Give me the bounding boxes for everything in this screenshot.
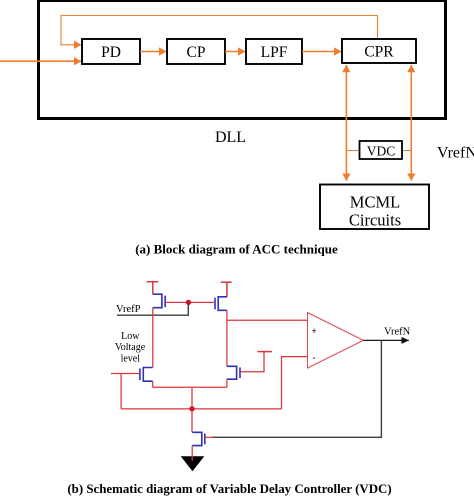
svg-text:DLL: DLL <box>215 129 246 146</box>
wire tail down to bottom rail <box>191 387 193 409</box>
wire PD to CP <box>140 51 166 53</box>
transistor M5 NMOS bottom <box>192 432 205 445</box>
block CPR <box>342 39 416 63</box>
wire CPR-MCML left (double arrow) <box>345 65 347 181</box>
block MCML Circuits <box>320 185 429 230</box>
svg-text:Circuits: Circuits <box>349 211 401 230</box>
power VDD T left <box>147 282 159 295</box>
wire bias to M4 gate <box>240 352 264 372</box>
svg-text:+: + <box>312 326 317 336</box>
node G junction dot <box>186 300 191 305</box>
wire CPR feedback to PD <box>61 16 378 45</box>
node tail junction dot <box>189 406 194 411</box>
wire M4 source down <box>226 379 228 387</box>
wire M5 source to ground <box>191 446 193 461</box>
wire input arrow into PD <box>0 60 81 62</box>
wire node G to M2 gate <box>189 301 216 303</box>
wire bottom rail <box>121 408 281 410</box>
svg-text:CPR: CPR <box>364 44 394 61</box>
svg-text:PD: PD <box>101 44 121 61</box>
wire comparator output VrefN <box>363 339 408 341</box>
svg-text:Low: Low <box>121 331 140 342</box>
svg-text:VrefN: VrefN <box>384 326 411 337</box>
transistor M1 PMOS left <box>153 294 165 308</box>
wire feedback output to M5 gate <box>212 340 381 437</box>
svg-text:(b) Schematic diagram of Varia: (b) Schematic diagram of Variable Delay … <box>67 482 391 496</box>
bias terminal T <box>257 351 272 353</box>
wire M2 drain down to M4 <box>226 310 228 366</box>
svg-text:(a) Block diagram of ACC techn: (a) Block diagram of ACC technique <box>135 242 338 257</box>
wire M1 gate to node G <box>165 301 188 303</box>
wire M3 source down <box>152 381 154 387</box>
wire VDC left connector <box>346 150 359 152</box>
transistor M3 NMOS left <box>140 368 153 382</box>
wire LPF to CPR <box>302 51 341 53</box>
svg-text:VDC: VDC <box>367 144 396 159</box>
wire VDC right connector <box>403 150 411 152</box>
block PD <box>82 39 140 64</box>
block LPF <box>246 39 302 64</box>
svg-text:level: level <box>121 354 141 365</box>
wire CP to LPF <box>225 51 245 53</box>
op-amp comparator U1 <box>308 313 364 369</box>
wire comparator minus input <box>282 357 308 409</box>
svg-text:CP: CP <box>187 44 206 61</box>
block CP <box>167 39 225 64</box>
svg-text:-: - <box>313 353 316 363</box>
svg-text:Voltage: Voltage <box>115 342 146 353</box>
svg-text:MCML: MCML <box>350 193 400 212</box>
wire sources rail <box>153 386 227 388</box>
transistor M4 NMOS right <box>227 366 240 379</box>
wire VrefP to node G <box>117 304 188 316</box>
wire tail to M5 drain <box>191 409 193 432</box>
block VDC <box>360 141 403 159</box>
wire M1 drain down to M3 <box>152 308 154 368</box>
wire M3 gate low voltage input <box>111 373 140 375</box>
svg-text:LPF: LPF <box>261 44 288 61</box>
wire CPR-MCML right (double arrow) <box>410 65 412 181</box>
DLL boundary box <box>39 1 446 119</box>
transistor M2 PMOS right <box>215 297 227 311</box>
wire M2 drain to comparator plus input <box>227 319 308 321</box>
svg-text:VrefN: VrefN <box>437 145 474 162</box>
power VDD T right <box>221 282 232 297</box>
ground symbol <box>181 456 205 471</box>
svg-text:VrefP: VrefP <box>116 304 141 315</box>
